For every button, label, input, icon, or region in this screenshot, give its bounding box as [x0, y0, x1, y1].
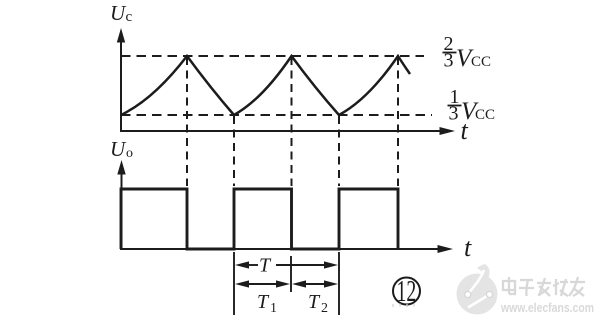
svg-text:U: U [110, 1, 127, 25]
svg-text:12: 12 [397, 274, 417, 309]
svg-text:3: 3 [444, 50, 454, 72]
svg-text:1: 1 [270, 301, 277, 316]
svg-text:T: T [308, 291, 321, 313]
svg-text:CC: CC [475, 107, 495, 123]
svg-text:T: T [259, 255, 272, 277]
svg-text:www.elecfans.com: www.elecfans.com [500, 300, 594, 315]
svg-text:t: t [464, 233, 472, 262]
svg-text:U: U [110, 137, 127, 161]
svg-text:CC: CC [471, 54, 491, 70]
svg-text:c: c [126, 9, 133, 25]
svg-text:T: T [257, 291, 270, 313]
svg-text:3: 3 [449, 103, 459, 125]
svg-text:o: o [126, 146, 133, 161]
svg-text:2: 2 [321, 301, 328, 316]
